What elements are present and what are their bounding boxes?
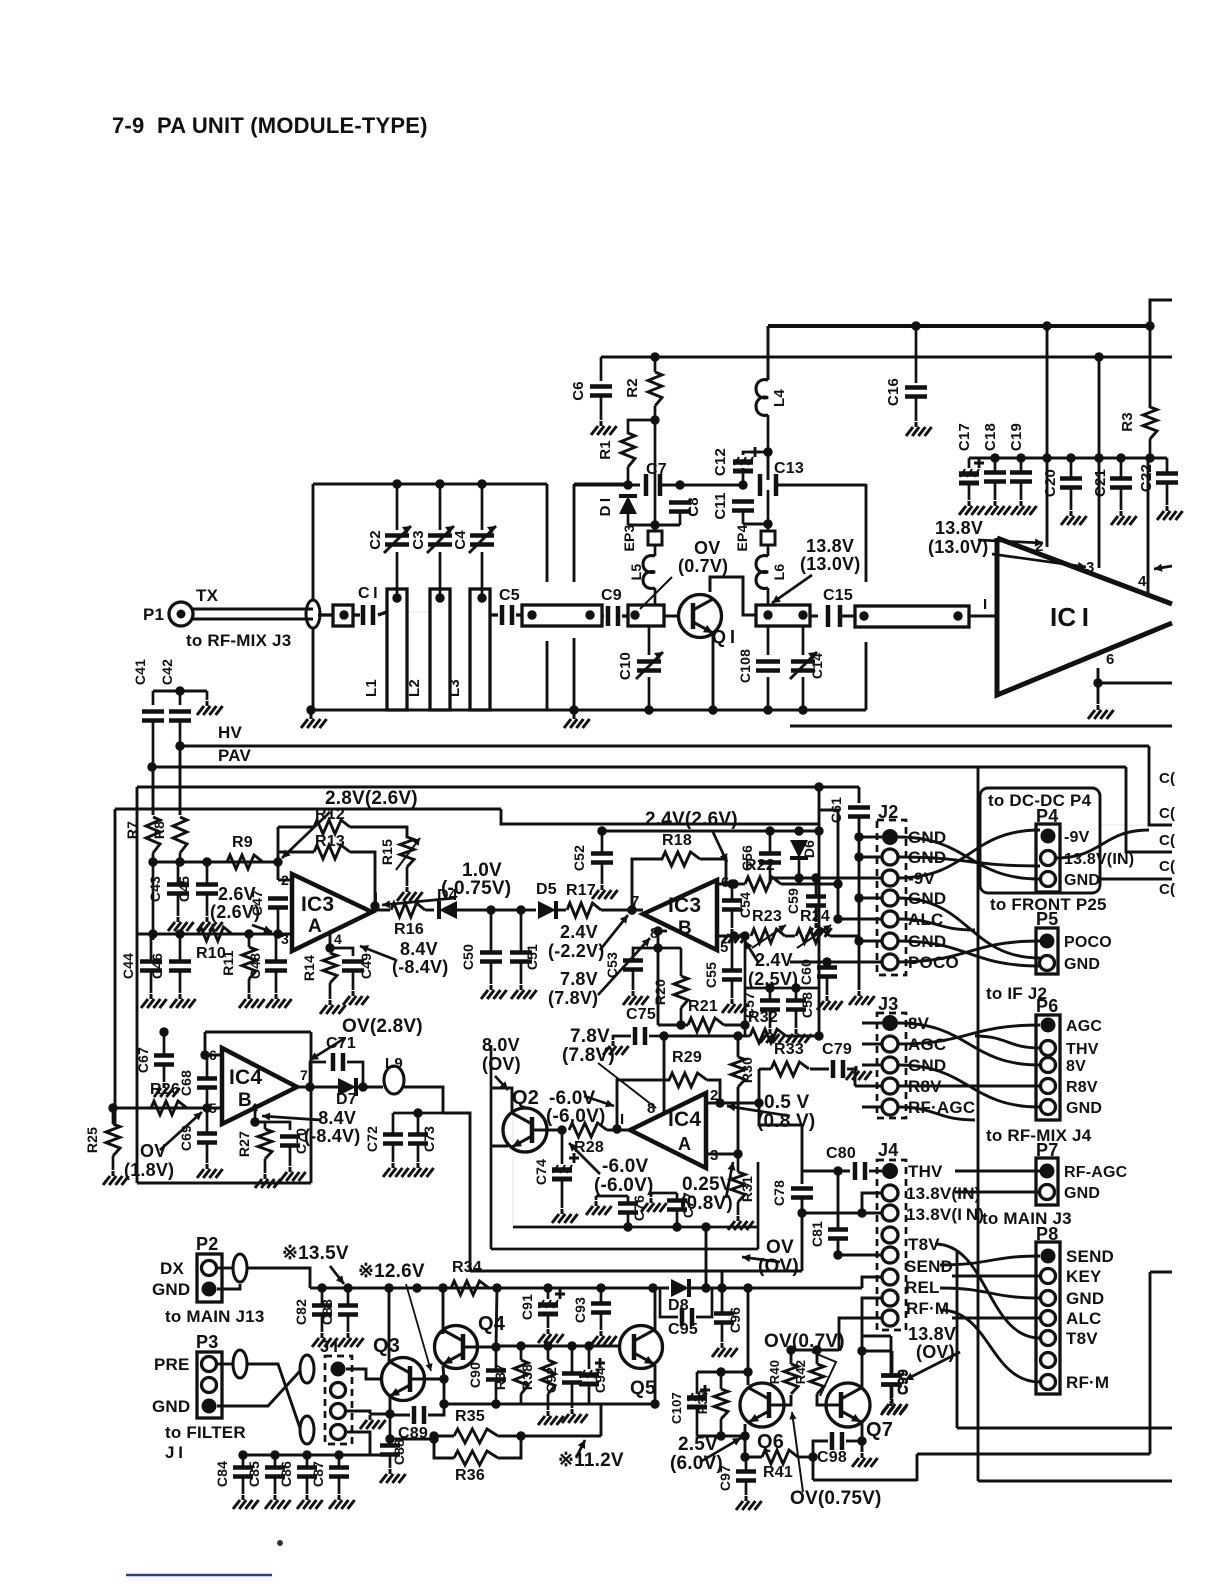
- capacitor C77: [667, 1201, 687, 1210]
- wire R32 right: [786, 1035, 819, 1038]
- wire R8 lower lead: [179, 853, 182, 862]
- svg-text:7.8V: 7.8V: [570, 1026, 610, 1047]
- junction pin6 node: [1093, 678, 1102, 687]
- svg-text:C94: C94: [592, 1367, 608, 1393]
- wire J2 GND6 to P5 GND2: [898, 941, 1040, 966]
- svg-text:C11: C11: [712, 492, 729, 519]
- wire C57 feed: [744, 936, 747, 988]
- svg-text:C95: C95: [668, 1321, 698, 1338]
- wire main line seg2: [353, 613, 360, 616]
- wire C43 gnd lead: [177, 894, 180, 916]
- wire R11 leads: [248, 934, 251, 947]
- wire C72 rail: [393, 1112, 443, 1115]
- annotation arrow 1.0V: [382, 898, 455, 905]
- junction C98-Q7e node: [857, 1436, 866, 1445]
- trimmer resistor R23: [751, 929, 785, 943]
- wire ALC riser: [819, 810, 838, 919]
- wire J2 gnd pin wire y837: [859, 836, 882, 839]
- svg-text:C(: C(: [1159, 805, 1175, 822]
- svg-text:13.8V: 13.8V: [935, 518, 983, 538]
- wire J4 T8V to P8 T8V: [935, 1244, 1040, 1338]
- wire C76 bottom: [627, 1213, 630, 1227]
- junction R7-rail: [148, 857, 157, 866]
- wire J2 gnd pin wire y898: [859, 897, 882, 900]
- wire C85 gnd lead: [274, 1477, 277, 1494]
- wire pin5 row IC4B: [113, 1107, 222, 1110]
- junction C60 top node: [822, 957, 831, 966]
- svg-text:R14: R14: [301, 955, 317, 981]
- junction R7-rail2: [148, 929, 157, 938]
- svg-text:C46: C46: [149, 953, 165, 979]
- ground R15: [397, 887, 423, 901]
- wire rail R3-C22: [1150, 457, 1167, 460]
- capacitor C81: [828, 1230, 848, 1239]
- capacitor C47: [268, 899, 288, 908]
- svg-text:R25: R25: [84, 1127, 100, 1153]
- wire C75 gnd lead: [613, 1036, 631, 1040]
- ground C57: [760, 1029, 786, 1043]
- svg-text:GND: GND: [1064, 872, 1100, 889]
- annotation arrow OV28: [310, 1038, 345, 1060]
- ground C59: [806, 923, 832, 937]
- capacitor C53: [623, 961, 643, 970]
- svg-text:C9: C9: [601, 587, 622, 604]
- capacitor C107 electrolytic: [687, 1395, 707, 1401]
- wire SEND pin drop: [862, 1277, 882, 1288]
- svg-text:to FILTER: to FILTER: [165, 1423, 246, 1442]
- svg-text:C96: C96: [727, 1307, 743, 1333]
- svg-text:REL: REL: [905, 1278, 940, 1297]
- ground C75 gnd: [603, 1041, 629, 1055]
- svg-text:R42: R42: [793, 1360, 808, 1384]
- stripline segment Q1 base: [628, 605, 664, 626]
- wire 13.8V(IN) jog: [862, 1193, 882, 1213]
- resistor R29: [669, 1073, 707, 1087]
- capacitor C76: [618, 1204, 638, 1213]
- wire R18 right: [700, 859, 726, 884]
- junction R3 top node: [1145, 321, 1154, 330]
- svg-text:C90: C90: [467, 1362, 483, 1388]
- svg-text:2.6V: 2.6V: [218, 884, 256, 904]
- capacitor C16: [905, 388, 927, 397]
- junction rail-pin3 node: [1094, 453, 1103, 462]
- svg-text:D6: D6: [801, 840, 817, 858]
- junction C2 tap: [392, 593, 401, 602]
- capacitor C15: [828, 605, 840, 627]
- svg-text:EP4: EP4: [734, 524, 750, 551]
- wire J3 8V wire: [862, 1022, 882, 1025]
- svg-text:C84: C84: [214, 1461, 230, 1487]
- J1 pin 3: [331, 1404, 346, 1419]
- junction C4 tap: [477, 593, 486, 602]
- wire C78 bottom: [801, 1198, 804, 1271]
- ground C44: [141, 994, 167, 1008]
- wire -9V left ext: [734, 877, 770, 879]
- wire C14 drop: [802, 626, 805, 655]
- svg-text:GND: GND: [1064, 1185, 1100, 1202]
- junction C14 gnd: [798, 705, 807, 714]
- svg-text:Q6: Q6: [757, 1431, 784, 1453]
- resistor R33: [771, 1062, 809, 1076]
- svg-text:※12.6V: ※12.6V: [358, 1261, 425, 1282]
- svg-text:(7.8V): (7.8V): [548, 988, 598, 1008]
- ground C72: [383, 1163, 409, 1177]
- junction R3 bottom: [1145, 453, 1154, 462]
- J1 pin 4: [331, 1425, 346, 1440]
- junction stripline3 left tap: [859, 611, 868, 620]
- wire Q3 collector: [388, 1288, 391, 1362]
- wire bias2 rail: [680, 484, 743, 487]
- P8 pin KEY: [1041, 1269, 1056, 1284]
- wire R23-R24: [785, 935, 795, 938]
- svg-text:DX: DX: [160, 1259, 184, 1278]
- svg-text:C16: C16: [885, 378, 902, 406]
- capacitor C11: [732, 502, 754, 511]
- ground C67: [154, 1083, 180, 1097]
- ground C70: [280, 1167, 306, 1181]
- junction R1-D1 node: [623, 480, 632, 489]
- svg-text:C15: C15: [823, 587, 853, 604]
- wire L5 to box: [654, 588, 657, 605]
- wire C89 right: [428, 1404, 444, 1415]
- ground C22: [1157, 506, 1183, 520]
- diode D1: [619, 496, 637, 514]
- svg-text:R12: R12: [315, 806, 345, 823]
- wire J3 R8V wire: [855, 1085, 882, 1088]
- wire C93 gnd: [600, 1313, 603, 1330]
- junction HV start: [175, 741, 184, 750]
- wire P4 13.8V in from HV drop: [1100, 824, 1149, 826]
- trimmer capacitor C10: [637, 662, 661, 671]
- junction R25 top: [108, 1103, 117, 1112]
- junction Q1 out box tap right: [798, 610, 807, 619]
- ground C45: [197, 917, 223, 931]
- svg-text:2.4V(2.6V): 2.4V(2.6V): [645, 809, 738, 830]
- wire C92 top: [571, 1346, 574, 1373]
- svg-text:C87: C87: [310, 1461, 326, 1487]
- svg-text:C(: C(: [1159, 770, 1175, 787]
- wire R11 gnd: [248, 979, 251, 993]
- wire C99 gnd: [890, 1385, 893, 1400]
- junction C51 top: [516, 905, 525, 914]
- resistor R37: [514, 1360, 528, 1394]
- svg-text:R34: R34: [452, 1259, 482, 1276]
- capacitor C75: [635, 1027, 645, 1045]
- capacitor C74 electrolytic: [552, 1167, 572, 1173]
- capacitor C9: [608, 606, 618, 626]
- wire TX coax upper: [193, 608, 313, 611]
- wire pin1 feedback riser: [617, 1080, 670, 1129]
- junction C75-pin8: [659, 1031, 668, 1040]
- capacitor C78: [791, 1189, 813, 1198]
- svg-text:P5: P5: [1036, 909, 1058, 929]
- wire bias rail C7-C8: [660, 484, 680, 487]
- junction rail x653: [650, 1399, 659, 1408]
- wire R17-pin7: [601, 909, 643, 912]
- ground C97: [736, 1496, 762, 1510]
- capacitor C73: [408, 1135, 428, 1144]
- junction C2 top: [392, 479, 401, 488]
- wire pin3 wire IC4A: [706, 1153, 738, 1156]
- resistor R8: [173, 817, 187, 853]
- junction row1213-x862: [857, 1208, 866, 1217]
- J3 pin R8V: [882, 1078, 898, 1094]
- junction x819 on y787: [814, 782, 823, 791]
- annotation line 12.6V to Q4: [406, 1284, 431, 1371]
- junction R21-C57 node: [740, 1020, 749, 1029]
- ground C16: [906, 422, 932, 436]
- svg-text:C73: C73: [421, 1126, 437, 1152]
- wire C81 lower lead: [837, 1239, 840, 1255]
- op-amp IC4A: [630, 1093, 706, 1168]
- wire C72 gnd: [392, 1144, 395, 1162]
- junction pin2-C78 node: [754, 1098, 763, 1107]
- wire C68 lead: [206, 1060, 209, 1078]
- resistor R14: [323, 953, 337, 983]
- junction C21 top: [1116, 453, 1125, 462]
- wire C95 left2: [660, 1288, 678, 1317]
- svg-text:C58: C58: [799, 992, 815, 1018]
- wire R7 lower lead: [152, 853, 155, 940]
- wire C13 right to box edge: [776, 484, 866, 487]
- svg-text:C86: C86: [278, 1461, 294, 1487]
- P5 pin POCO: [1040, 934, 1055, 949]
- svg-text:R41: R41: [763, 1464, 793, 1481]
- wire R15 gnd lead: [406, 867, 409, 886]
- wire C42 bottom lead: [179, 722, 182, 746]
- svg-text:R11: R11: [220, 950, 236, 976]
- wire C83 gnd: [347, 1315, 350, 1332]
- wire C55 gnd: [731, 980, 734, 998]
- wire x819 vertical mid: [818, 831, 821, 1036]
- wire C91 gnd: [547, 1313, 550, 1328]
- wire C41 bottom lead: [152, 722, 155, 767]
- wire C52 gnd: [601, 863, 604, 884]
- svg-text:GND: GND: [1066, 1100, 1102, 1117]
- capacitor C71: [333, 1053, 343, 1071]
- ground R11: [239, 994, 265, 1008]
- wire pin6 branch right: [1098, 682, 1172, 685]
- annotation arrow -6.0V q2: [584, 1096, 614, 1106]
- wire C108 bottom: [767, 677, 770, 710]
- svg-text:13.8V: 13.8V: [806, 536, 854, 556]
- ground C76 gnd: [586, 1201, 612, 1215]
- svg-text:C7: C7: [646, 461, 667, 478]
- wire C54 top: [731, 884, 734, 900]
- svg-text:R24: R24: [800, 908, 830, 925]
- svg-text:C50: C50: [460, 944, 476, 970]
- wire line 13.8V feed y357: [601, 356, 1172, 359]
- wire Q3 base wire: [411, 1378, 444, 1381]
- svg-text:(-6.0V): (-6.0V): [594, 1175, 653, 1196]
- P2 pin GND: [202, 1282, 217, 1297]
- junction C59 top: [811, 873, 820, 882]
- wire Q4 base wire: [463, 1346, 496, 1349]
- wire R21 row: [658, 1024, 688, 1027]
- ground C96: [712, 1343, 738, 1357]
- J4 pin T8V: [882, 1247, 898, 1263]
- wire right vertical x1150: [1149, 1272, 1152, 1454]
- junction C4 top: [477, 479, 486, 488]
- svg-text:R27: R27: [236, 1131, 252, 1157]
- wire R14 gnd: [329, 983, 332, 999]
- wire Q2 collector up: [491, 1088, 512, 1111]
- junction R36 right node: [516, 1431, 525, 1440]
- wire C94 gnd: [588, 1384, 591, 1404]
- wire C94 top: [588, 1346, 591, 1369]
- resistor R26: [151, 1101, 187, 1115]
- wire feedback drop x819: [818, 787, 821, 831]
- svg-text:(0.7V): (0.7V): [678, 556, 728, 576]
- J2 pin GND: [882, 890, 898, 906]
- P3 pin GND: [202, 1399, 217, 1414]
- P6 pin R8V: [1041, 1079, 1056, 1094]
- wire section box bottom: [137, 1182, 311, 1185]
- junction rail1439 x434: [429, 1434, 438, 1443]
- wire R41C98 drop: [812, 1457, 815, 1480]
- coax P3: [233, 1350, 247, 1378]
- wire C53 top: [633, 945, 658, 960]
- diode D5: [538, 901, 556, 919]
- junction D8 out2: [717, 1283, 726, 1292]
- J4 pin 13.8V(I N): [882, 1205, 898, 1221]
- ground J1 pin3: [360, 1415, 386, 1429]
- wire section box left x137: [136, 787, 139, 1183]
- svg-text:Q I: Q I: [712, 627, 735, 647]
- svg-text:R3: R3: [1119, 412, 1136, 432]
- diode D4: [439, 901, 457, 919]
- wire J2 -9V wire: [770, 877, 882, 880]
- wire C82 gnd: [321, 1315, 324, 1332]
- junction R40 top: [786, 1345, 795, 1354]
- junction C72-73 node: [413, 1108, 422, 1117]
- junction C58 top: [791, 983, 800, 992]
- junction R20-R21: [676, 1020, 685, 1029]
- capacitor C89: [414, 1406, 424, 1424]
- wire bias bottom rail: [628, 524, 680, 527]
- svg-text:C107: C107: [669, 1392, 684, 1424]
- capacitor C79: [833, 1060, 843, 1078]
- junction rail2 x589: [584, 1341, 593, 1350]
- wire R40 top lead: [790, 1350, 793, 1364]
- wire R8V from C79: [854, 1069, 857, 1086]
- svg-text:P6: P6: [1036, 996, 1058, 1016]
- svg-text:A: A: [678, 1134, 691, 1154]
- wire C77 gnd stub: [650, 1193, 653, 1197]
- junction PAV start: [147, 762, 156, 771]
- junction J2 gnd node y941: [854, 936, 863, 945]
- wire C54 gnd: [731, 910, 734, 928]
- junction IC3A out: [370, 901, 379, 910]
- svg-text:SEND: SEND: [905, 1257, 953, 1276]
- junction R35 left node: [429, 1431, 438, 1440]
- diode D7: [338, 1078, 356, 1096]
- svg-text:SEND: SEND: [1066, 1247, 1114, 1266]
- wire C6 to gnd: [600, 396, 603, 420]
- wire R2 bottom lead: [654, 406, 657, 420]
- junction C57 top: [765, 983, 774, 992]
- svg-text:C67: C67: [135, 1047, 151, 1073]
- wire C3 lower lead: [439, 552, 442, 598]
- junction R32-x819: [814, 1031, 823, 1040]
- wire inner box step: [501, 809, 819, 824]
- resistor R41: [762, 1450, 798, 1464]
- wire J4 SEND to P8 SEND: [940, 1256, 1040, 1265]
- connector P7 body: [1036, 1158, 1058, 1205]
- wire IC3B top feedback y831: [602, 830, 819, 833]
- wire Q1 box top rail y484: [574, 483, 628, 486]
- wire J2 ALC wire: [838, 918, 882, 921]
- wire C98 left: [813, 1441, 828, 1457]
- ground C46: [170, 994, 196, 1008]
- junction C18 top: [990, 453, 999, 462]
- svg-text:D8: D8: [668, 1297, 689, 1314]
- wire C51 gnd: [520, 962, 523, 984]
- wire C71 row: [310, 1062, 326, 1087]
- J4 pin REL: [882, 1290, 898, 1306]
- wire L4 top corner: [767, 326, 770, 380]
- svg-text:RF·M: RF·M: [906, 1299, 949, 1318]
- svg-text:R9: R9: [232, 834, 253, 851]
- wire C68 topl: [206, 1055, 209, 1060]
- wire Q2 base-R28: [533, 1129, 562, 1132]
- resistor R27: [258, 1129, 272, 1159]
- wire C48 gnd: [275, 971, 278, 993]
- wire C47 lower: [277, 908, 280, 934]
- svg-text:C48: C48: [247, 953, 263, 979]
- svg-text:POCO: POCO: [1064, 934, 1112, 951]
- svg-text:GND: GND: [1066, 1289, 1104, 1308]
- wire J2 gnd pin wire y857: [859, 856, 882, 859]
- wire C10 bottom: [648, 677, 651, 710]
- capacitor C82: [312, 1306, 332, 1315]
- svg-text:(2.6V): (2.6V): [210, 902, 260, 922]
- wire C107 top: [696, 1372, 699, 1394]
- wire R21 right: [724, 1024, 745, 1027]
- resistor R39: [714, 1389, 728, 1419]
- svg-text:8.4V: 8.4V: [400, 939, 438, 959]
- wire IC3A pin3 rail y934: [137, 933, 292, 936]
- svg-text:(7.8V): (7.8V): [562, 1045, 615, 1066]
- wire C71 riser: [309, 1062, 311, 1087]
- resistor R20: [674, 976, 688, 1008]
- junction pin7 node: [627, 905, 636, 914]
- svg-text:(-2.2V): (-2.2V): [548, 941, 604, 961]
- junction D7-C71 node: [358, 1082, 367, 1091]
- wire C90 column top: [496, 1288, 497, 1347]
- wire C53 gnd: [632, 970, 635, 990]
- wire bottom line y1481 right: [978, 1480, 1172, 1483]
- svg-text:R8V: R8V: [1066, 1079, 1098, 1096]
- wire tank right vertical upper: [546, 484, 549, 582]
- capacitor C57: [760, 1001, 780, 1010]
- svg-text:(1.8V): (1.8V): [124, 1160, 174, 1180]
- wire C77 bottom: [676, 1210, 679, 1227]
- P3 pin PRE: [202, 1357, 217, 1372]
- junction R11 top: [244, 929, 253, 938]
- svg-text:6: 6: [1106, 651, 1115, 668]
- P7 pin GND: [1040, 1185, 1055, 1200]
- wire C55 top: [731, 936, 734, 970]
- resistor R25: [106, 1124, 120, 1156]
- wire DX run: [247, 1268, 310, 1288]
- svg-text:4: 4: [334, 931, 342, 947]
- svg-text:L2: L2: [406, 679, 423, 697]
- wire C19 gnd lead: [1020, 482, 1023, 500]
- wire Q6 base jog: [769, 1395, 791, 1405]
- resistor R17: [567, 903, 601, 917]
- wire top rail y326: [768, 324, 1150, 328]
